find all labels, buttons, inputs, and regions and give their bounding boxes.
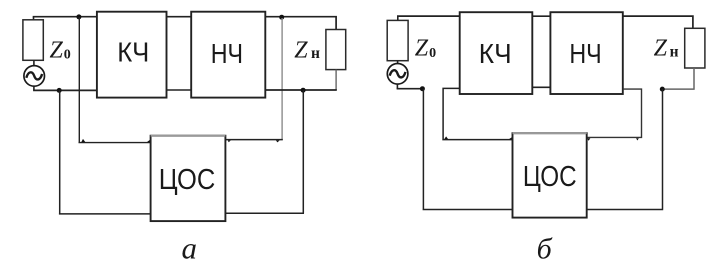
wire: Z0 bottom to source (b): [397, 61, 399, 64]
wire: KCh-NCh bottom link (b): [532, 86, 550, 88]
node: junction dot bottom-right (a): [301, 88, 306, 93]
arrowhead tick upper-right (a): [276, 140, 280, 142]
wire: KCh-NCh top link (a): [167, 16, 192, 18]
wire: tap from bottom rail to DSP lower-left (a): [59, 90, 151, 213]
resistor Zn (a): [326, 30, 346, 70]
wire: KCh-NCh top link (b): [532, 15, 550, 17]
arrowhead tick upper-left (b): [444, 136, 448, 139]
wire: source to bottom rail (a): [33, 86, 35, 90]
svg-text:н: н: [670, 44, 679, 61]
AC source G1 (a): [24, 66, 45, 87]
wire: tap from top rail to DSP upper-left (a): [79, 17, 151, 143]
AC source G1 (b): [387, 64, 408, 85]
wire: bottom rail left (a): [33, 89, 97, 91]
wire: source to bottom stub (b): [396, 84, 398, 89]
wire: DSP upper-right feedback horizontal (a): [225, 139, 282, 141]
wire: KCh input stub with tap down to DSP upper-left (b): [442, 88, 512, 139]
wire: NCh output stub with tap down to DSP upper-right (b): [587, 89, 643, 137]
svg-text:б: б: [537, 232, 553, 265]
block NCh (a): [191, 12, 265, 98]
wire: Z0 top to top rail (a): [33, 17, 35, 20]
svg-text:ЦОС: ЦОС: [523, 161, 577, 193]
svg-text:Z: Z: [294, 38, 308, 64]
svg-text:0: 0: [429, 46, 436, 61]
svg-text:н: н: [311, 45, 320, 62]
wire: tap from bottom-right down to DSP lower-right (a): [225, 90, 304, 213]
resistor Z0 (a): [23, 20, 43, 61]
block KCh (b): [460, 12, 533, 94]
wire: Zn bottom to load node (b): [662, 68, 694, 89]
block NCh (b): [550, 12, 622, 94]
wire: tap from source node down to DSP lower-left (b): [423, 89, 513, 210]
svg-text:ЦОС: ЦОС: [159, 164, 216, 196]
svg-text:Z: Z: [50, 38, 64, 64]
wire: KCh-NCh bottom link (a): [167, 89, 192, 91]
arrowhead tick at DSP right edge (a): [228, 140, 231, 142]
svg-text:КЧ: КЧ: [479, 38, 512, 69]
wire: Zn bottom to bottom rail (a): [335, 70, 337, 90]
arrowhead tick upper-left (a): [81, 139, 85, 142]
node: junction dot on bottom rail (a): [57, 88, 62, 93]
svg-text:НЧ: НЧ: [569, 38, 601, 69]
arrowhead tick upper-right (b): [636, 138, 639, 140]
svg-text:КЧ: КЧ: [117, 37, 149, 68]
wire: top rail right with corner to Zn (a): [265, 17, 336, 30]
wire: tap from load node down to DSP lower-right (b): [586, 89, 663, 209]
block DSP TsOS (a): [151, 136, 226, 221]
arrowhead tick at DSP left edge (b): [509, 137, 512, 139]
wire: Z0 bottom to source (a): [33, 60, 35, 65]
resistor Z0 (b): [387, 20, 408, 60]
wire: source bottom stub to tap node (b): [397, 88, 423, 90]
wire: Z0 top to top rail (b): [397, 16, 399, 20]
wire: top rail right with corner to Zn (b): [623, 16, 693, 28]
wire: tap from top-right down to DSP upper-right (a): [281, 18, 283, 140]
node: junction dot on top rail (a): [76, 14, 81, 19]
arrowhead tick at DSP left edge (a): [147, 140, 151, 143]
node: junction dot load bottom (b): [660, 87, 665, 92]
svg-text:Z: Z: [654, 36, 668, 62]
arrowhead tick at DSP right edge (b): [587, 138, 591, 141]
resistor Zn (b): [685, 28, 705, 68]
block KCh (a): [97, 12, 167, 98]
wire: top rail left (a): [33, 16, 97, 18]
block DSP TsOS (b): [513, 133, 587, 217]
node: junction dot top-right (a): [279, 15, 284, 20]
wire: top rail left (b): [397, 15, 460, 17]
svg-text:Z: Z: [415, 35, 429, 61]
node: junction dot source bottom (b): [420, 86, 425, 91]
svg-text:а: а: [182, 230, 198, 265]
svg-text:0: 0: [64, 48, 71, 63]
svg-text:НЧ: НЧ: [211, 38, 243, 69]
wire: bottom rail right (a): [265, 89, 337, 91]
